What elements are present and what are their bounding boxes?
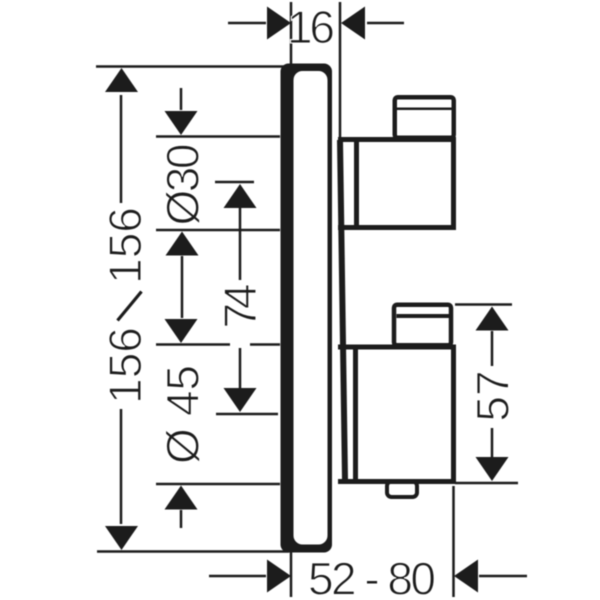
svg-text:74: 74: [214, 284, 266, 329]
svg-text:Ø30: Ø30: [156, 144, 208, 226]
svg-text:52 - 80: 52 - 80: [308, 552, 436, 600]
svg-text:156: 156: [99, 207, 151, 284]
svg-text:156: 156: [99, 327, 151, 404]
svg-text:57: 57: [466, 370, 518, 421]
svg-text:Ø 45: Ø 45: [156, 365, 208, 464]
svg-text:16: 16: [287, 1, 335, 53]
